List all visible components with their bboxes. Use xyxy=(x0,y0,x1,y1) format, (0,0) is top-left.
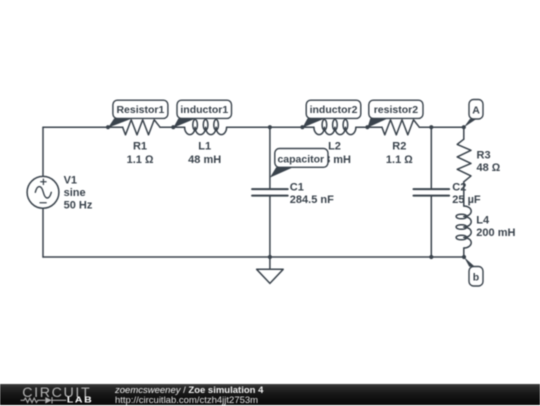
node between R1 and L1 xyxy=(171,125,175,129)
capacitor C2 plate bottom xyxy=(414,195,450,197)
inductor L4 scallops vertical xyxy=(464,206,471,248)
svg-text:Resistor1: Resistor1 xyxy=(116,104,164,116)
callout box resistor2 xyxy=(369,100,423,118)
inductor L1 loop 1 xyxy=(193,120,198,131)
node between L2 and R2 xyxy=(365,125,369,129)
callout boxes xyxy=(113,100,483,287)
inductor L1 loop 2 xyxy=(203,120,208,131)
inductor L2 loop 2 xyxy=(333,120,338,131)
inductor L2 scallops xyxy=(314,127,356,134)
node at R1 left xyxy=(106,125,110,129)
node b corner xyxy=(462,255,466,259)
wire R2 to right corner xyxy=(419,126,464,128)
CircuitLab logo xyxy=(0,384,110,405)
svg-text:L1: L1 xyxy=(198,140,211,152)
inductor L1 loop 3 xyxy=(214,120,219,131)
svg-text:A: A xyxy=(472,104,480,116)
callout tail capacitor xyxy=(270,167,293,177)
wire C1 top lead xyxy=(269,127,271,188)
svg-text:L4: L4 xyxy=(476,214,490,226)
svg-text:inductor2: inductor2 xyxy=(310,104,358,116)
capacitor C1 plate bottom xyxy=(252,195,288,197)
V1 sine wave xyxy=(35,187,51,198)
inductor L2 loop 3 xyxy=(343,120,348,131)
callout box inductor2 xyxy=(306,100,361,118)
V1 minus sign xyxy=(40,202,46,204)
svg-text:capacitor: capacitor xyxy=(277,153,324,165)
svg-text:R1: R1 xyxy=(133,140,147,152)
svg-text:1.1 Ω: 1.1 Ω xyxy=(127,154,154,166)
resistor R3 zigzag vertical xyxy=(457,139,471,182)
svg-text:48 mH: 48 mH xyxy=(188,154,221,166)
node C2 top junction xyxy=(429,125,433,129)
wire C1 bottom lead xyxy=(269,197,271,257)
svg-text:C1: C1 xyxy=(290,182,304,194)
node ground junction xyxy=(268,255,272,259)
svg-text:sine: sine xyxy=(64,187,86,199)
callout tail resistor2 xyxy=(367,118,388,127)
wire between L2 and R2 xyxy=(356,126,382,128)
callout tail inductor2 xyxy=(302,118,325,127)
wire L4 bottom lead xyxy=(463,248,465,257)
callout box inductor1 xyxy=(177,100,232,118)
svg-text:1.1 Ω: 1.1 Ω xyxy=(386,154,413,166)
resistor R1 zigzag xyxy=(123,120,160,135)
node A corner xyxy=(462,125,466,129)
svg-text:R3: R3 xyxy=(477,150,491,162)
wire left rail upper xyxy=(42,127,44,176)
capacitor C2 plate top xyxy=(414,188,450,190)
svg-text:R2: R2 xyxy=(392,140,406,152)
node L2 left xyxy=(300,125,304,129)
svg-text:V1: V1 xyxy=(64,175,77,187)
callout box capacitor xyxy=(275,149,328,168)
svg-text:284.5 nF: 284.5 nF xyxy=(290,194,334,206)
wire C2 bottom lead xyxy=(430,197,432,257)
wire R3 top lead xyxy=(463,127,465,139)
callout tail Resistor1 xyxy=(108,118,133,127)
inductor L4 loop 1 xyxy=(456,214,467,219)
callout tail inductor1 xyxy=(173,118,196,127)
ground symbol xyxy=(257,257,284,283)
wire left rail lower xyxy=(42,208,44,257)
wire top rail left segment xyxy=(43,126,123,128)
inductor L2 loop 1 xyxy=(322,120,327,131)
footer bar xyxy=(0,384,540,405)
svg-text:50 Hz: 50 Hz xyxy=(64,199,93,211)
capacitor C1 plate top xyxy=(252,188,288,190)
callout box Resistor1 xyxy=(113,100,168,118)
inductor L4 loop 2 xyxy=(456,225,467,230)
svg-text:C2: C2 xyxy=(452,182,466,194)
V1 plus sign xyxy=(41,179,46,184)
node C1 top junction xyxy=(268,125,272,129)
svg-text:resistor2: resistor2 xyxy=(374,104,419,116)
wire between R3 and L4 xyxy=(463,182,465,206)
inductor L4 loop 3 xyxy=(456,235,467,240)
voltage source V1 circle xyxy=(27,176,59,208)
callout box b xyxy=(469,267,483,287)
resistor R2 zigzag xyxy=(382,120,419,135)
wire between L1 and L2 xyxy=(227,126,314,128)
svg-text:25 µF: 25 µF xyxy=(452,194,481,206)
inductor L1 scallops xyxy=(185,127,227,134)
callout box A xyxy=(469,100,483,120)
callout tail b xyxy=(464,257,475,267)
svg-text:LAB: LAB xyxy=(67,396,92,404)
wire between R1 and L1 xyxy=(160,126,185,128)
wire bottom rail xyxy=(43,256,464,258)
footer credit line 1 xyxy=(115,386,263,396)
component value texts xyxy=(64,140,516,239)
node C2 bottom junction xyxy=(429,255,433,259)
callout tail A xyxy=(464,119,477,128)
wire C2 top lead xyxy=(430,127,432,188)
svg-text:inductor1: inductor1 xyxy=(180,104,228,116)
callout texts xyxy=(116,104,480,283)
svg-text:200 mH: 200 mH xyxy=(476,227,515,239)
footer credit line 2 xyxy=(115,396,258,406)
svg-text:48 Ω: 48 Ω xyxy=(477,162,501,174)
svg-text:L2: L2 xyxy=(328,140,341,152)
svg-text:b: b xyxy=(473,271,479,283)
